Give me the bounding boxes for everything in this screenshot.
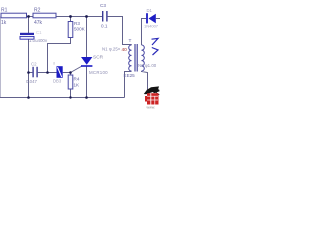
svg-text:D1: D1 [147, 8, 153, 13]
wire C2 to diac [38, 72, 57, 74]
capacitor C3 [102, 11, 103, 22]
svg-text:0.1: 0.1 [101, 24, 108, 29]
svg-text:0.047: 0.047 [26, 79, 38, 84]
wire secondary bottom [142, 71, 148, 90]
node top junction 1 [27, 15, 30, 18]
svg-text:C3: C3 [100, 3, 106, 8]
wire C1 branch vertical upper [28, 17, 30, 34]
wire C1 branch vertical lower [28, 39, 30, 97]
svg-text:DB3: DB3 [53, 79, 62, 84]
svg-text:EE25: EE25 [124, 73, 136, 78]
wire left edge [0, 17, 2, 98]
svg-text:47k: 47k [34, 20, 43, 26]
resistor R3 [68, 22, 73, 38]
arrow mark upper right edge [152, 38, 159, 45]
svg-text:R3: R3 [74, 21, 80, 26]
wire diac to gate node [63, 72, 71, 74]
arrow mark lower right edge [152, 48, 158, 56]
svg-text:T: T [129, 38, 132, 44]
wire bottom rail [0, 97, 125, 99]
wire diode anode to edge [156, 18, 160, 20]
svg-text:R2: R2 [34, 8, 41, 14]
wire top rail R1 to R2 [26, 16, 33, 18]
resistor R1 [1, 13, 27, 18]
wire R4 bottom lead [70, 89, 72, 98]
node bottom junction 3 [85, 96, 88, 99]
diode D1 [146, 13, 148, 23]
wire gate diagonal [71, 66, 83, 73]
node mid junction C branch [27, 71, 30, 74]
wire diode cathode to secondary top [142, 19, 147, 46]
node gate junction [69, 71, 72, 74]
svg-text:C1: C1 [36, 30, 42, 35]
svg-text:1k: 1k [1, 20, 7, 26]
wire primary bottom riser [125, 72, 132, 98]
resistor R2 [33, 13, 56, 18]
diac D2 [57, 66, 63, 78]
node top junction 3 [85, 15, 88, 18]
node mid junction R3 [46, 71, 49, 74]
svg-text:N1 φ.25×: N1 φ.25× [102, 47, 121, 52]
wire R4 top lead [70, 73, 72, 76]
svg-text:C2: C2 [31, 62, 37, 67]
wire top rail C3 to transformer primary top [108, 17, 132, 45]
resistor R4 [68, 75, 73, 89]
svg-text:1N4007: 1N4007 [144, 24, 159, 29]
logo watermark [144, 86, 160, 109]
capacitor C1 [20, 33, 34, 35]
wire top rail R2 to C3 [56, 16, 102, 18]
capacitor C2 [32, 67, 33, 78]
svg-text:500K: 500K [74, 27, 86, 32]
wire R3 top lead [70, 17, 72, 22]
wire SCR cathode [86, 66, 88, 98]
svg-text:R4: R4 [74, 77, 80, 82]
svg-text:MCR100: MCR100 [89, 70, 108, 75]
node bottom junction 1 [27, 96, 30, 99]
wire mid row to C2 [29, 72, 33, 74]
svg-text:www.: www. [147, 106, 156, 110]
svg-text:40: 40 [122, 47, 128, 53]
node top junction 2 [69, 15, 72, 18]
node bottom junction 2 [69, 96, 71, 98]
wire R3 bottom L-path [48, 38, 71, 73]
primary winding [129, 45, 132, 71]
wire SCR anode [86, 17, 88, 58]
core [134, 44, 136, 72]
thyristor Q1 [81, 57, 92, 65]
svg-text:SCR: SCR [93, 55, 104, 61]
svg-text:1.0u400v: 1.0u400v [29, 38, 48, 43]
svg-text:R1: R1 [1, 8, 8, 14]
svg-text:N2 φ1.00: N2 φ1.00 [138, 63, 157, 68]
secondary winding [142, 45, 145, 71]
svg-text:1K: 1K [74, 83, 81, 88]
